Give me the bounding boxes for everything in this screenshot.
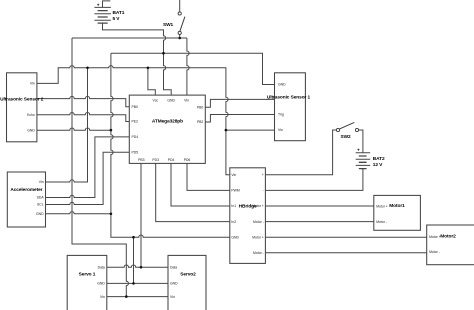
svg-text:Echo: Echo [27, 113, 35, 117]
svg-text:+: + [357, 148, 360, 153]
wire SW1 lower contact stub [179, 35, 181, 38]
svg-text:Accelerometer: Accelerometer [10, 187, 42, 193]
svg-text:GND: GND [167, 99, 175, 103]
svg-text:Motor1: Motor1 [389, 203, 405, 209]
wire SW1 output rail [72, 37, 187, 39]
ultrasonic sensor 1 box [275, 73, 306, 141]
svg-text:GND: GND [97, 282, 105, 286]
wire SW1 to ATMega Vin [187, 38, 189, 95]
wire ATMega PD4 to HBridge In1 [171, 163, 230, 206]
svg-text:PB0: PB0 [132, 105, 139, 109]
wire GND rail to Ultrasonic Sensor 1 GND [111, 53, 275, 84]
svg-text:SCL: SCL [37, 203, 44, 207]
svg-text:Servo 1: Servo 1 [79, 271, 96, 277]
svg-text:In2: In2 [231, 220, 236, 224]
node 5V ATMega Vcc branch [147, 67, 150, 70]
svg-text:Ultrasonic Sensor 1: Ultrasonic Sensor 1 [267, 95, 311, 101]
svg-text:Motor -: Motor - [253, 220, 264, 224]
wire servo Vin line [107, 296, 168, 298]
ultrasonic sensor 2 labels [0, 82, 44, 133]
svg-text:Motor +: Motor + [429, 235, 441, 239]
svg-text:Vin: Vin [30, 82, 35, 86]
ATMega328pb box U1 [129, 95, 205, 163]
wire HBridge plus to SW2 [265, 130, 336, 175]
wire Ultrasonic Sensor 2 Trig to ATMega PB0 [37, 96, 129, 106]
node SW1 output [178, 37, 181, 40]
svg-text:GND: GND [231, 235, 239, 239]
wire accelerometer SDA to ATMega PD4 [46, 137, 130, 198]
wire servo GND line [107, 282, 168, 284]
svg-text:PB3: PB3 [138, 158, 145, 162]
node GND accelerometer [110, 213, 113, 216]
wire HBridge to Motor2 minus [265, 252, 426, 254]
svg-text:Servo2: Servo2 [180, 271, 196, 277]
svg-text:SW1: SW1 [163, 22, 174, 28]
wire HBridge to Motor2 plus [265, 236, 426, 238]
node GND ultrasonic sensor 2 [110, 129, 113, 132]
wire BAT1 minus to GND rail and ATMega GND pin [103, 23, 172, 95]
svg-text:Vin: Vin [100, 295, 105, 299]
svg-text:PD3: PD3 [152, 158, 159, 162]
svg-text:BAT1: BAT1 [113, 10, 125, 16]
svg-text:PWM: PWM [231, 189, 239, 193]
svg-text:Motor -: Motor - [376, 220, 387, 224]
svg-text:Ultrasonic Sensor 2: Ultrasonic Sensor 2 [0, 96, 44, 102]
Motor1 box [374, 195, 421, 230]
battery BAT1 labels [97, 3, 125, 22]
node servo data [140, 266, 143, 269]
svg-text:Vin: Vin [231, 173, 236, 177]
battery BAT1 top wire [103, 1, 111, 8]
component boxes [7, 73, 474, 310]
node 5V ultrasonic sensor 1 [225, 129, 228, 132]
ultrasonic sensor 2 box [7, 73, 37, 142]
svg-text:Vin: Vin [184, 99, 189, 103]
svg-text:Trig: Trig [278, 113, 284, 117]
svg-text:Motor +: Motor + [376, 205, 388, 209]
wire HBridge to Motor1 minus [265, 221, 373, 223]
Motor1 labels [376, 203, 405, 224]
svg-text:PD5: PD5 [132, 151, 139, 155]
Servo 1 box [67, 255, 107, 310]
wire 5V down to servo Vin line [72, 38, 128, 297]
svg-text:PB2: PB2 [197, 120, 204, 124]
svg-text:GND: GND [36, 212, 44, 216]
svg-text:Vin: Vin [170, 295, 175, 299]
HBridge box [230, 168, 266, 264]
node GND servo branch [132, 236, 135, 239]
node servo Vin [125, 295, 128, 298]
battery BAT2 plates [356, 153, 371, 169]
wire 5V rail (Vin net) [37, 66, 230, 175]
wire GND branch to servo GND line [133, 237, 135, 283]
svg-text:PD6: PD6 [184, 158, 191, 162]
svg-text:ATMega328pb: ATMega328pb [152, 119, 183, 125]
svg-text:Motor +: Motor + [252, 235, 264, 239]
node 5V accelerometer branch [86, 67, 89, 70]
ATMega328pb labels U1 [132, 99, 204, 163]
wire accelerometer GND to GND vertical [46, 212, 111, 214]
svg-text:+: + [262, 173, 264, 177]
switch SW1 [178, 12, 185, 35]
svg-text:Vcc: Vcc [152, 99, 158, 103]
Motor2 labels [429, 234, 456, 255]
node GND at battery BAT1 [162, 52, 165, 55]
svg-text:Motor -: Motor - [429, 250, 440, 254]
svg-text:PB0: PB0 [197, 105, 204, 109]
wire ATMega PB2 to Ultrasonic Sensor 1 Trig [205, 115, 274, 123]
svg-text:+: + [97, 3, 100, 8]
svg-text:SW2: SW2 [341, 134, 352, 140]
wire ATMega Vcc to 5V rail [148, 68, 155, 95]
svg-text:In1: In1 [231, 204, 236, 208]
wire servo data line [107, 265, 168, 267]
wire GND vertical to HBridge GND [111, 53, 230, 237]
svg-text:GND: GND [170, 282, 178, 286]
HBridge labels [231, 173, 263, 255]
wire Ultrasonic Sensor 2 GND to GND vertical [37, 128, 111, 130]
svg-text:PD4: PD4 [132, 135, 139, 139]
svg-text:SDA: SDA [37, 196, 45, 200]
svg-text:12 V: 12 V [373, 162, 383, 168]
wire HBridge minus to BAT2 minus [265, 169, 363, 191]
svg-text:Motor +: Motor + [252, 204, 264, 208]
wire ATMega PB3 to servo data line [140, 163, 142, 267]
accelerometer box [7, 172, 45, 227]
wire Ultrasonic Sensor 2 Echo to ATMega PE2 [37, 112, 129, 121]
wire HBridge to Motor1 plus [265, 205, 373, 207]
wire SW2 to BAT2 plus [359, 130, 363, 153]
accelerometer labels [10, 180, 44, 216]
Servo2 labels [170, 265, 196, 298]
wire 5V branch to Ultrasonic Sensor 1 Vin [226, 129, 275, 131]
battery BAT1 plates [94, 7, 111, 23]
svg-text:GND: GND [278, 83, 286, 87]
svg-text:PE2: PE2 [132, 120, 139, 124]
ultrasonic sensor 1 labels [267, 83, 311, 132]
svg-text:Data: Data [170, 265, 177, 269]
node servo GND [132, 282, 135, 285]
svg-text:5 V: 5 V [113, 16, 121, 22]
wire accelerometer SCL to ATMega PD5 [46, 152, 130, 204]
wire ATMega PD6 to HBridge PWM [187, 163, 230, 190]
battery BAT2 labels [357, 148, 385, 168]
svg-text:PD4: PD4 [168, 158, 175, 162]
Servo2 box [168, 255, 206, 310]
switch SW2 [336, 122, 358, 131]
svg-text:Motor2: Motor2 [440, 234, 456, 240]
svg-text:BAT2: BAT2 [373, 156, 385, 162]
Motor2 box [427, 225, 474, 265]
wire ATMega PB0 to Ultrasonic Sensor 1 Echo [205, 99, 274, 107]
wire SW1 top from edge [179, 0, 181, 12]
svg-text:Vin: Vin [39, 180, 44, 184]
svg-text:-: - [263, 189, 264, 193]
svg-text:Vin: Vin [278, 128, 283, 132]
svg-text:GND: GND [27, 128, 35, 132]
svg-text:Motor -: Motor - [253, 251, 264, 255]
wire accelerometer Vin to 5V rail [46, 68, 88, 182]
wire ATMega PD3 to HBridge In2 [156, 163, 230, 221]
svg-text:Data: Data [98, 265, 105, 269]
Servo 1 labels [79, 265, 106, 298]
